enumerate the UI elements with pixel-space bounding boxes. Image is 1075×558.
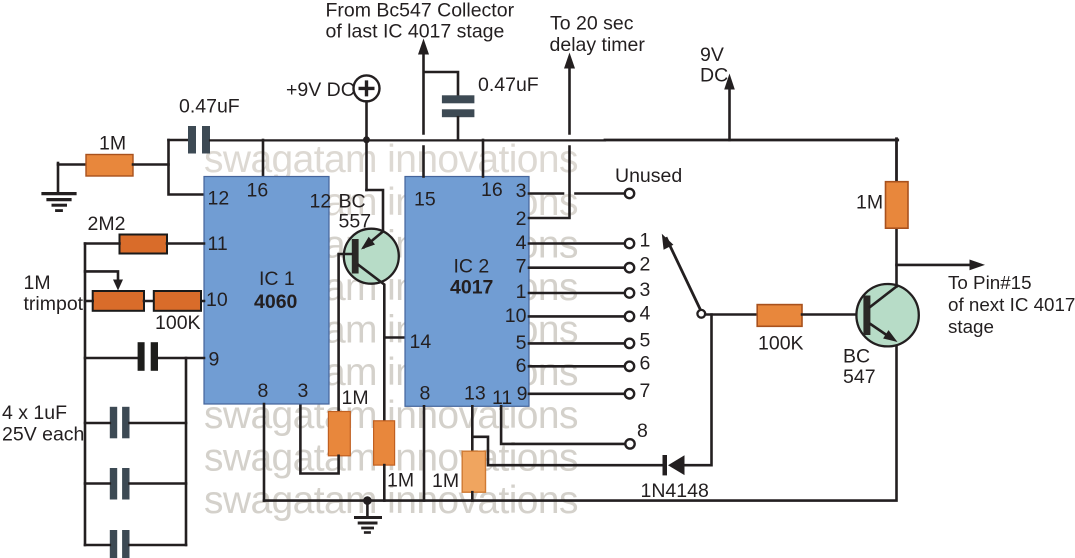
- svg-text:1M: 1M: [99, 133, 126, 155]
- wire pole to 100K: [705, 313, 757, 316]
- svg-text:Unused: Unused: [615, 165, 682, 187]
- capacitor C3 1uF: [110, 407, 117, 439]
- wire: [85, 242, 204, 245]
- node junction dot: [363, 136, 370, 143]
- svg-text:From Bc547 Collector: From Bc547 Collector: [326, 0, 515, 22]
- wire IC1 pin8 down: [263, 404, 266, 501]
- wire left rail: [84, 244, 87, 546]
- node ground junction: [363, 496, 372, 505]
- resistor R2 1M: [328, 412, 350, 456]
- wire IC2 pin8 down: [423, 406, 426, 500]
- capacitor C5 1uF: [110, 530, 117, 558]
- svg-text:0.47uF: 0.47uF: [478, 74, 539, 96]
- svg-text:1M: 1M: [24, 272, 51, 294]
- wire: [383, 465, 386, 501]
- svg-text:4: 4: [640, 302, 651, 324]
- svg-text:1M: 1M: [342, 387, 369, 409]
- svg-text:9: 9: [517, 383, 528, 405]
- resistor R6 1M: [462, 451, 485, 492]
- svg-text:25V each: 25V each: [2, 424, 84, 446]
- svg-text:100K: 100K: [155, 312, 201, 334]
- capacitor C6 0.47uF: [442, 95, 475, 103]
- svg-text:4 x 1uF: 4 x 1uF: [2, 402, 67, 424]
- svg-text:3: 3: [298, 380, 309, 402]
- wire BC557 collector: [359, 265, 385, 421]
- svg-text:8: 8: [258, 380, 269, 402]
- wire IC1 pin16: [262, 140, 265, 177]
- resistor R5 100K: [154, 291, 201, 311]
- svg-text:1M: 1M: [856, 192, 883, 214]
- wire IC2 pin16: [482, 140, 485, 177]
- svg-text:IC 2: IC 2: [454, 256, 490, 278]
- wire pin14 stub: [384, 336, 405, 339]
- svg-text:delay timer: delay timer: [550, 34, 646, 56]
- svg-text:9V: 9V: [700, 44, 724, 66]
- op-amp IC2 4017 body: [405, 177, 529, 407]
- svg-text:6: 6: [516, 355, 527, 377]
- wire: [802, 313, 863, 316]
- svg-text:1: 1: [640, 230, 651, 252]
- transistor Q1 BC557: [344, 229, 399, 284]
- node switch pole: [697, 310, 705, 318]
- ground: [356, 501, 381, 533]
- resistor R8 1M: [886, 182, 909, 229]
- svg-text:5: 5: [516, 332, 527, 354]
- resistor R4 2M2: [120, 235, 168, 254]
- svg-text:stage: stage: [948, 316, 994, 337]
- svg-text:+9V DC: +9V DC: [286, 79, 355, 101]
- svg-text:trimpot: trimpot: [24, 293, 84, 315]
- svg-text:0.47uF: 0.47uF: [179, 96, 240, 118]
- wire: [58, 163, 86, 166]
- wire from-collector line with bus hop: [424, 55, 459, 177]
- resistor R1 1M: [86, 155, 133, 177]
- svg-text:1N4148: 1N4148: [641, 480, 709, 502]
- wire supply bus: [210, 139, 605, 141]
- svg-text:13: 13: [464, 383, 486, 405]
- wire BC557 emitter feed: [367, 190, 384, 232]
- svg-text:16: 16: [481, 179, 503, 201]
- svg-text:2M2: 2M2: [88, 213, 126, 235]
- switch arm: [667, 239, 702, 312]
- svg-text:15: 15: [414, 189, 436, 211]
- svg-text:4060: 4060: [254, 291, 298, 313]
- wire: [169, 139, 189, 142]
- wire BC547 collector: [870, 228, 897, 307]
- wire pin3 to Unused with hop: [529, 192, 624, 195]
- svg-text:8: 8: [420, 383, 431, 405]
- wire to pin15 arrow: [897, 264, 971, 267]
- transistor Q2 BC547: [856, 284, 918, 346]
- op-amp IC1 4060 body: [204, 177, 329, 405]
- svg-text:10: 10: [505, 305, 527, 327]
- svg-text:5: 5: [640, 329, 651, 351]
- wire BC557 base: [339, 254, 352, 412]
- capacitor C4 1uF: [110, 468, 117, 500]
- wire pin9 row: [85, 357, 204, 360]
- wire right rail: [185, 358, 188, 545]
- svg-text:4: 4: [516, 232, 527, 254]
- wire to 20sec delay with hop: [529, 68, 570, 218]
- wire 9V DC arrow: [728, 89, 731, 140]
- svg-text:7: 7: [640, 380, 651, 402]
- svg-text:8: 8: [637, 420, 648, 442]
- svg-text:1: 1: [516, 281, 527, 303]
- svg-text:11: 11: [208, 233, 228, 255]
- wire trimpot wiper: [85, 271, 118, 283]
- svg-text:DC: DC: [700, 65, 728, 87]
- svg-text:1M: 1M: [432, 470, 459, 492]
- svg-text:3: 3: [516, 180, 527, 202]
- wire: [85, 300, 204, 303]
- trimpot VR1 1M: [93, 291, 144, 311]
- svg-text:of last IC 4017 stage: of last IC 4017 stage: [326, 21, 505, 43]
- svg-text:100K: 100K: [758, 333, 804, 355]
- wire pin11 to terminal 8: [501, 406, 624, 444]
- svg-text:2: 2: [640, 254, 651, 276]
- resistor R7 100K: [757, 305, 802, 327]
- wire: [300, 404, 338, 474]
- svg-text:12: 12: [310, 191, 332, 213]
- svg-text:9: 9: [209, 349, 220, 371]
- svg-text:10: 10: [206, 289, 228, 311]
- svg-text:547: 547: [843, 366, 876, 388]
- wire output rows: [529, 244, 624, 394]
- WATERMARK: [204, 138, 578, 522]
- resistor R3 1M: [374, 421, 395, 465]
- svg-text:6: 6: [640, 352, 651, 374]
- svg-text:3: 3: [640, 279, 651, 301]
- svg-text:12: 12: [208, 188, 230, 210]
- svg-text:2: 2: [516, 208, 527, 230]
- capacitor C1 0.47uF: [188, 126, 196, 154]
- wire pin13 down and diode row: [472, 406, 663, 465]
- svg-text:7: 7: [516, 256, 527, 278]
- svg-text:14: 14: [410, 331, 432, 353]
- svg-text:557: 557: [339, 211, 372, 233]
- svg-text:BC: BC: [843, 346, 870, 368]
- svg-text:BC: BC: [339, 191, 366, 213]
- wire: [169, 140, 205, 195]
- wire: [365, 101, 368, 190]
- svg-text:1M: 1M: [387, 470, 414, 492]
- wire diode to pole: [685, 315, 712, 466]
- svg-text:of next IC 4017: of next IC 4017: [948, 294, 1075, 315]
- wire BC547 emitter: [870, 324, 889, 337]
- capacitor C2: [138, 342, 145, 371]
- svg-text:To 20 sec: To 20 sec: [550, 13, 634, 35]
- wire ground bus: [264, 338, 897, 501]
- svg-text:To Pin#15: To Pin#15: [948, 272, 1032, 293]
- svg-text:IC 1: IC 1: [259, 268, 295, 290]
- diode D1 1N4148: [663, 455, 668, 475]
- node +9V: [354, 75, 380, 101]
- svg-text:swagatam innovations: swagatam innovations: [204, 138, 578, 181]
- wire: [133, 163, 169, 166]
- svg-text:16: 16: [247, 180, 269, 202]
- svg-text:4017: 4017: [450, 277, 493, 299]
- node terminals: [625, 189, 635, 449]
- ground: [43, 163, 75, 211]
